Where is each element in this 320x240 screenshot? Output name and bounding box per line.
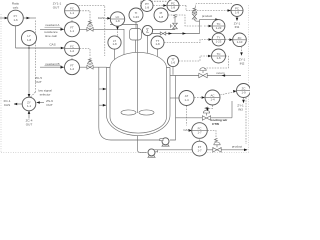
svg-text:1-8: 1-8 bbox=[155, 42, 160, 46]
valve return line with actuator bbox=[199, 68, 207, 78]
wire overhead arrowheads bbox=[169, 32, 173, 35]
instrument AT 1-4 bbox=[179, 91, 194, 106]
wire dashed ZC1-9 down to product area bbox=[245, 98, 247, 145]
svg-text:1-23: 1-23 bbox=[133, 15, 139, 19]
wire dashed AT to AC bbox=[194, 97, 204, 99]
svg-text:return: return bbox=[216, 71, 224, 75]
svg-text:1-7: 1-7 bbox=[197, 131, 202, 135]
wire dashed FT1-7 to FC1-7 bbox=[199, 139, 201, 141]
wire TT1-6 down to return line bbox=[172, 67, 174, 75]
svg-text:1-8: 1-8 bbox=[159, 15, 164, 19]
wire LT to vessel bbox=[114, 49, 116, 60]
svg-text:IN1: IN1 bbox=[235, 25, 240, 29]
wire feed B arrowhead bbox=[61, 66, 65, 69]
wire ZY input bottom bbox=[28, 111, 30, 119]
svg-text:FC: FC bbox=[198, 126, 202, 130]
wire ZC-5 OUT dashed into ZY top bbox=[31, 21, 36, 98]
wire dashed FC1-1 output to valve A actuator bbox=[80, 11, 90, 20]
svg-text:OUT: OUT bbox=[35, 80, 42, 84]
svg-text:OUT: OUT bbox=[26, 123, 33, 127]
svg-text:1-2: 1-2 bbox=[70, 67, 75, 71]
summator sigma bbox=[142, 25, 152, 35]
svg-text:CAS: CAS bbox=[183, 128, 189, 132]
wire dashed FT1-1 to FC1-1 bbox=[71, 18, 73, 21]
svg-text:1-6: 1-6 bbox=[13, 18, 18, 22]
svg-text:1-9: 1-9 bbox=[235, 11, 240, 15]
svg-text:reactant B: reactant B bbox=[45, 62, 59, 66]
node junction under LY bbox=[28, 47, 30, 49]
svg-text:LC: LC bbox=[116, 15, 120, 19]
wire return line y75.5 bbox=[170, 75, 241, 77]
wire dashed AC to cooling valve actuator bbox=[208, 105, 213, 109]
wire ZY output left bbox=[14, 103, 22, 105]
wire vent riser bbox=[174, 18, 176, 30]
instrument ZC 1-9 right edge bbox=[237, 84, 251, 98]
valve vent (vertical bowtie) bbox=[173, 23, 178, 29]
wire TI1-23 down to function block bbox=[135, 22, 137, 29]
wire dashed FC1-7 to product valve actuator bbox=[207, 131, 216, 140]
instrument FY 1-6 ratio bbox=[8, 10, 24, 26]
svg-text:1-4: 1-4 bbox=[184, 98, 189, 102]
wire TT1-8 to vessel bbox=[157, 49, 159, 57]
wire dashed ZY1-1 OUT label to cascade bbox=[71, 6, 105, 57]
svg-text:1-7: 1-7 bbox=[197, 148, 202, 152]
wire dashed AC to ZC1-9 bbox=[220, 92, 236, 96]
svg-text:1-8: 1-8 bbox=[145, 5, 150, 9]
instrument ZC 1-10 right edge bbox=[233, 33, 247, 47]
pump product transfer bbox=[147, 149, 157, 157]
wire dashed PC to PY top right bbox=[179, 6, 231, 11]
instrument TT 1-8 bbox=[151, 36, 164, 49]
valve feed B with diaphragm actuator bbox=[87, 59, 93, 70]
wire dashed PT to PC bbox=[153, 5, 166, 7]
wire feed A line bbox=[40, 29, 124, 54]
svg-text:OUT: OUT bbox=[46, 103, 53, 107]
wire dashed into TY1-23 bbox=[204, 39, 211, 41]
instrument AC 1-4 bbox=[205, 90, 220, 105]
wire jacket outlet left bbox=[99, 67, 161, 140]
wire product bottom line bbox=[158, 149, 247, 151]
valve cooling water with actuator bbox=[202, 107, 210, 120]
instrument FC 1-1 bbox=[65, 3, 80, 18]
svg-text:product: product bbox=[232, 144, 242, 148]
wire dashed CAS into FC1-7 bbox=[189, 130, 192, 132]
pump jacket circulation bbox=[160, 138, 170, 146]
wire vapor line from dome apex bbox=[110, 25, 138, 53]
svg-text:1-1: 1-1 bbox=[27, 104, 32, 108]
reactor vessel outer jacket bbox=[107, 68, 171, 136]
svg-text:1-6: 1-6 bbox=[216, 56, 221, 60]
agitator paddle left bbox=[121, 110, 136, 115]
svg-text:1-2: 1-2 bbox=[70, 49, 75, 53]
wire dashed ZC1-9 down to IN3 bbox=[243, 98, 245, 101]
valve product line with actuator bbox=[213, 138, 221, 152]
instrument LY 1-8 residence time bbox=[22, 31, 37, 46]
svg-text:selector: selector bbox=[40, 93, 51, 97]
wire ZY input right bbox=[37, 102, 44, 104]
wire dashed TY down toward TC1-6 bbox=[241, 47, 243, 54]
svg-text:IN3: IN3 bbox=[238, 108, 243, 112]
valve small on overhead line bbox=[160, 32, 166, 35]
agitator shaft bbox=[137, 53, 139, 114]
wire function block down to vessel bbox=[135, 40, 137, 52]
instrument TC 1-23 bbox=[212, 20, 225, 33]
wire FY output right bbox=[23, 17, 36, 19]
wire vessel to AT bbox=[170, 97, 179, 99]
svg-text:product: product bbox=[202, 14, 212, 18]
wire dashed CAS into LC bbox=[106, 17, 111, 19]
svg-text:1-9: 1-9 bbox=[241, 91, 246, 95]
svg-text:reactant A: reactant A bbox=[46, 23, 61, 27]
wire dashed TC1-6 to return valve actuator bbox=[204, 56, 229, 70]
wire jacket inlet upper bbox=[99, 88, 107, 90]
wire product top line bbox=[200, 19, 216, 21]
vent valve spring squiggle bbox=[174, 14, 177, 18]
wire dashed PY to vent valve positioner bbox=[196, 4, 233, 8]
valve feed A with diaphragm actuator bbox=[87, 21, 93, 32]
instrument TC 1-6 bbox=[212, 49, 226, 63]
wire dashed TT1-8 to TY1-23 bbox=[164, 40, 203, 43]
wire FY input left bbox=[0, 17, 8, 19]
jacket top closure bbox=[107, 67, 171, 69]
valve vent PC-controlled with actuator bbox=[192, 8, 199, 22]
svg-text:1-8: 1-8 bbox=[27, 38, 32, 42]
svg-text:1-8: 1-8 bbox=[171, 6, 176, 10]
instrument LC 1-8 bbox=[110, 12, 124, 26]
wire dashed TY to ZC right bbox=[225, 39, 232, 41]
svg-text:FC: FC bbox=[70, 7, 74, 11]
instrument TY 1-23 bbox=[212, 33, 225, 46]
svg-text:1-8: 1-8 bbox=[112, 42, 117, 46]
instrument PT 1-8 bbox=[141, 0, 153, 12]
instrument FT 1-1 bbox=[65, 22, 80, 37]
svg-text:1-1: 1-1 bbox=[70, 11, 75, 15]
svg-text:calc: calc bbox=[13, 6, 19, 10]
wire dashed PI to TC1-23 bbox=[168, 15, 203, 26]
svg-text:1-23: 1-23 bbox=[216, 26, 222, 30]
svg-text:IN2: IN2 bbox=[240, 61, 245, 65]
wire dashed FC1-2 output to valve B actuator bbox=[80, 49, 90, 58]
wire dashed into TC1-23 bbox=[204, 25, 211, 27]
wire LY output down to ZY selector bbox=[28, 46, 30, 98]
instrument ZY 1-1 low selector bbox=[22, 97, 36, 111]
svg-text:AC: AC bbox=[211, 93, 215, 97]
wire vessel bottom drain bbox=[138, 136, 147, 152]
svg-text:1-10: 1-10 bbox=[237, 40, 243, 44]
svg-text:OUT: OUT bbox=[53, 6, 60, 10]
instrument PY 1-9 top right bbox=[231, 5, 243, 17]
wire function block to summator bbox=[142, 32, 144, 33]
svg-text:1-6: 1-6 bbox=[171, 61, 176, 65]
wire cooling water line bbox=[176, 101, 233, 118]
wire pump1 discharge riser bbox=[170, 76, 176, 141]
wire feed A arrowhead bbox=[61, 28, 65, 31]
instrument PC 1-8 bbox=[167, 0, 179, 12]
wire summator output to vent riser bbox=[152, 29, 175, 31]
function block rounded square bbox=[130, 29, 142, 41]
instrument FC 1-2 bbox=[65, 41, 80, 56]
agitator paddle right bbox=[139, 110, 154, 115]
wire summator to vessel bbox=[147, 36, 149, 54]
instrument LT 1-8 bbox=[108, 36, 121, 49]
svg-text:1-1: 1-1 bbox=[70, 29, 75, 33]
wire jacket inlet lower bbox=[99, 104, 107, 106]
svg-text:1-8: 1-8 bbox=[115, 19, 120, 23]
instrument TI 1-23 bbox=[129, 8, 143, 22]
wire dashed TT1-6 to TC1-6 bbox=[179, 56, 208, 61]
reactor vessel inner wall bbox=[110, 52, 167, 133]
wire FY down to ratio line bbox=[15, 26, 17, 48]
svg-text:1-23: 1-23 bbox=[216, 40, 222, 44]
instrument FT 1-2 bbox=[65, 60, 80, 75]
figure border bbox=[1, 5, 249, 153]
svg-text:CAS: CAS bbox=[49, 43, 55, 47]
wire dashed FT1-2 to FC1-2 bbox=[71, 56, 73, 60]
instrument FT 1-7 bbox=[192, 141, 207, 156]
instrument TT 1-6 bbox=[167, 55, 178, 66]
wire dashed PY down to ZY-1 IN1 ref bbox=[236, 17, 238, 19]
instrument PI 1-8 bbox=[154, 8, 168, 22]
instrument FC 1-7 bbox=[192, 123, 208, 139]
wire overhead line y33.5 bbox=[152, 20, 200, 34]
wire dashed route near PT bbox=[141, 1, 168, 12]
svg-text:time calc: time calc bbox=[45, 34, 58, 38]
wire dashed LC to LT bbox=[117, 26, 119, 36]
wire ratio setpoint line y48 into FC1-2 bbox=[16, 47, 65, 49]
wire dashed signal down to CAS bbox=[186, 106, 188, 126]
svg-text:Σ: Σ bbox=[146, 28, 149, 34]
svg-text:CAS: CAS bbox=[4, 103, 10, 107]
svg-text:CTW: CTW bbox=[212, 122, 219, 126]
svg-text:1-4: 1-4 bbox=[210, 98, 215, 102]
svg-text:FC: FC bbox=[70, 44, 74, 48]
svg-text:CAS: CAS bbox=[98, 16, 104, 20]
wire feed B line bbox=[40, 66, 107, 68]
